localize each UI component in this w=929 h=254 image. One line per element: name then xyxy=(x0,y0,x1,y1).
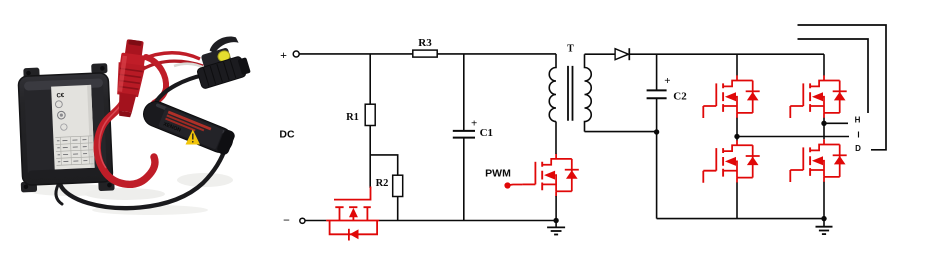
svg-text:C€: C€ xyxy=(56,93,65,99)
transistor Q1 (chopper MOSFET, rotated symbol) xyxy=(326,187,379,241)
svg-text:+: + xyxy=(664,75,670,87)
wire H node to QD drain xyxy=(823,123,825,139)
wire I line xyxy=(737,136,849,138)
svg-text:D: D xyxy=(855,144,861,153)
svg-text:+: + xyxy=(280,48,287,62)
wire QB drain stub xyxy=(823,54,825,75)
transformer T xyxy=(549,44,591,132)
wire R1 branch vertical xyxy=(369,54,371,188)
wire H line xyxy=(824,122,848,124)
svg-text:PWM: PWM xyxy=(485,167,511,179)
white wire xyxy=(174,64,206,69)
red wires to top-right connectors xyxy=(141,53,200,60)
svg-text:R1: R1 xyxy=(346,112,359,123)
wire primary bottom to Q2 drain xyxy=(555,122,557,155)
wire secondary top to diode xyxy=(585,53,616,55)
red wire down to igniter xyxy=(146,57,166,103)
product label xyxy=(51,85,95,170)
transistor Q5 (bridge bottom-left) xyxy=(703,140,759,183)
resistor R2 xyxy=(376,175,403,196)
svg-text:I: I xyxy=(857,131,859,140)
svg-text:T: T xyxy=(567,44,574,55)
photo shadows xyxy=(26,184,114,196)
node ground junction left xyxy=(553,218,558,223)
red AMP connector on top xyxy=(111,38,148,118)
wire top rail right xyxy=(629,53,824,55)
svg-text:−: − xyxy=(283,213,290,227)
transistor Q3 (bridge top-left) xyxy=(703,75,759,118)
warning triangle on igniter xyxy=(186,130,201,145)
- terminal xyxy=(283,213,305,227)
svg-text:C2: C2 xyxy=(673,91,687,103)
wire QD source to ground xyxy=(823,182,825,219)
wire output bracket outer xyxy=(798,25,887,150)
wire QA drain stub xyxy=(736,54,738,75)
wire Q2 source down xyxy=(555,196,557,221)
resistor R1 xyxy=(346,104,375,125)
node I junction xyxy=(734,134,739,139)
top-right connector cluster xyxy=(190,33,251,89)
wire R2 branch xyxy=(370,155,398,221)
capacitor C1 xyxy=(453,54,493,221)
ballast box with mounting tabs xyxy=(16,63,115,194)
ground (left) xyxy=(547,221,565,235)
black wire from igniter to connectors xyxy=(156,75,204,102)
red power cable loop xyxy=(97,95,155,184)
wire PWM gate lead xyxy=(508,184,522,187)
transistor Q4 (bridge top-right) xyxy=(790,75,846,118)
ground (right) xyxy=(816,219,833,235)
node C2 bottom junction xyxy=(654,129,659,134)
transistor Q2 (PWM MOSFET) xyxy=(522,154,578,197)
wire bottom rail left xyxy=(305,220,556,222)
node ground junction right xyxy=(821,216,826,221)
igniter capsule xyxy=(140,98,237,156)
wire QB source to H node xyxy=(823,118,825,124)
transistor Q6 (bridge bottom-right) xyxy=(790,139,846,182)
black cable loop from ballast to igniter gland xyxy=(60,146,226,208)
svg-text:H: H xyxy=(855,116,861,125)
svg-text:C1: C1 xyxy=(480,127,493,139)
+ terminal xyxy=(280,48,299,62)
wire QC source to bottom rail xyxy=(736,183,738,219)
svg-text:R3: R3 xyxy=(418,37,432,49)
svg-text:R2: R2 xyxy=(376,178,389,189)
diode D1 xyxy=(615,48,629,60)
resistor R3 xyxy=(413,37,437,57)
capacitor C2 xyxy=(647,54,688,132)
wire top rail left xyxy=(299,53,556,55)
svg-text:DC: DC xyxy=(279,129,295,141)
wire C2 junction down to bottom rail xyxy=(656,132,658,219)
wire QA source to I node xyxy=(736,118,738,137)
wire output bracket inner xyxy=(798,39,869,113)
wire secondary bottom xyxy=(585,131,657,133)
node PWM input dot xyxy=(504,182,510,188)
node H junction xyxy=(821,121,826,126)
wire I node to QC drain xyxy=(736,137,738,141)
svg-text:+: + xyxy=(471,118,477,130)
wire bottom rail right xyxy=(657,218,824,220)
